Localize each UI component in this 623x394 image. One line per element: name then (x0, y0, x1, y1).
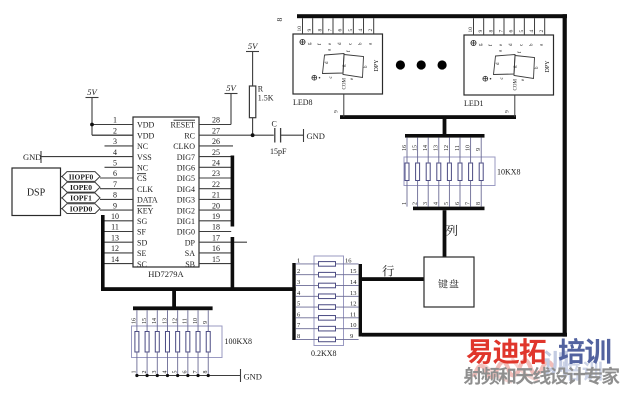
RN2 resistors (319, 262, 336, 342)
svg-text:DP: DP (185, 238, 196, 247)
svg-text:15: 15 (212, 255, 220, 264)
svg-text:15: 15 (412, 145, 418, 151)
bus: top LED segment bus (297, 14, 567, 18)
RN1 top pins with numbers (402, 138, 482, 163)
watermark slogan shepin he tianxian sheji zhuanjia (464, 367, 482, 385)
svg-text:9: 9 (350, 333, 353, 340)
power 5V supply #3 (RC) (246, 41, 259, 86)
svg-text:6: 6 (338, 29, 344, 32)
svg-text:CS: CS (137, 174, 147, 183)
svg-text:17: 17 (212, 233, 220, 242)
bus: 100KX8 top bus (133, 306, 213, 310)
power 5V supply #1 (VDD) (86, 87, 99, 135)
svg-text:9: 9 (476, 148, 482, 151)
net tag IOPD0 (61, 204, 101, 214)
svg-text:DPY: DPY (374, 59, 380, 72)
LED8 COM pin wire (334, 94, 344, 117)
svg-text:8: 8 (476, 202, 482, 205)
svg-text:SB: SB (185, 260, 195, 269)
bus: 10KX8 top bus (405, 134, 485, 138)
svg-text:3: 3 (423, 202, 429, 205)
svg-text:IIOPF0: IIOPF0 (69, 172, 94, 181)
svg-text:10: 10 (468, 27, 474, 33)
svg-text:13: 13 (162, 318, 168, 324)
U1 pin 23 (DIG5) (177, 169, 231, 183)
wire RN3 bottom common to GND (137, 375, 240, 377)
U1 pin 1 (VDD) (92, 116, 155, 130)
wire 5V to VDD pins (92, 125, 133, 136)
svg-text:3: 3 (152, 371, 158, 374)
U1 pin 2 (VDD) (92, 126, 155, 140)
resistor network RN1 10KX8 body (404, 157, 521, 186)
svg-text:GND: GND (307, 131, 325, 141)
svg-text:6: 6 (509, 30, 515, 33)
resistor network RN3 100KX8 body (132, 326, 253, 358)
svg-text:DIG5: DIG5 (177, 174, 195, 183)
U1 pin 16 (SA) (185, 244, 231, 258)
svg-text:19: 19 (212, 212, 220, 221)
U1 pin 27 (RC) (184, 126, 273, 140)
watermark logo echo (light overlay) (474, 350, 602, 382)
svg-text:5: 5 (172, 371, 178, 374)
svg-text:20: 20 (212, 201, 220, 210)
svg-text:1: 1 (297, 257, 300, 264)
svg-text:IOPD0: IOPD0 (70, 204, 93, 213)
svg-text:9: 9 (113, 201, 117, 210)
keyboard block (jianpan) (424, 257, 474, 307)
svg-text:18: 18 (212, 223, 220, 232)
svg-text:9: 9 (307, 29, 313, 32)
svg-text:DIG3: DIG3 (177, 196, 195, 205)
U1 pin 15 (SB) (185, 255, 231, 269)
svg-text:CLK: CLK (137, 185, 153, 194)
ground GND (VSS) (23, 151, 41, 163)
bus: bottom right return line (362, 333, 567, 337)
svg-text:4: 4 (113, 148, 117, 157)
U1 pin 25 (DIG7) (177, 148, 231, 162)
svg-text:16: 16 (132, 318, 138, 324)
svg-text:16: 16 (345, 257, 352, 264)
U1 pin 20 (DIG2) (177, 201, 231, 215)
LED1 COM and DPY labels (514, 60, 552, 91)
junction dot RC node (251, 133, 255, 137)
svg-text:8: 8 (488, 30, 494, 33)
U1 pin 13 (SD) (105, 233, 148, 247)
svg-text:7: 7 (465, 202, 471, 205)
LED1 COM pin wire (505, 95, 515, 117)
bus: 10KX8 bottom bus (413, 207, 485, 211)
svg-text:27: 27 (212, 126, 220, 135)
svg-text:28: 28 (212, 116, 220, 125)
svg-text:SG: SG (137, 217, 147, 226)
svg-text:3: 3 (113, 137, 117, 146)
svg-text:7: 7 (113, 180, 117, 189)
bus: column line to keyboard (443, 210, 447, 257)
svg-text:VSS: VSS (137, 153, 152, 162)
svg-text:13: 13 (350, 290, 357, 297)
RN2 right pins with numbers (336, 257, 359, 340)
svg-text:RESET: RESET (171, 121, 196, 130)
svg-text:9: 9 (478, 30, 484, 33)
bus: 0.2KX8 left bar (292, 263, 295, 340)
svg-text:2: 2 (142, 371, 148, 374)
svg-text:16: 16 (212, 244, 220, 253)
U1 pin 18 (DIG0) (177, 223, 231, 237)
svg-text:LED1: LED1 (464, 99, 484, 108)
DSP block (12, 168, 61, 216)
svg-text:SE: SE (137, 249, 146, 258)
svg-text:10: 10 (350, 322, 357, 329)
net tag IOPE0 (61, 182, 101, 192)
resistor R 1.5K (249, 85, 273, 118)
net tag IIOPF0 (61, 172, 101, 182)
bus: DP/SA/SB bus vertical (231, 237, 235, 291)
svg-text:14: 14 (152, 318, 158, 324)
svg-text:13: 13 (434, 145, 440, 151)
svg-text:RC: RC (184, 131, 195, 140)
svg-text:VDD: VDD (137, 121, 155, 130)
svg-text:DPY: DPY (545, 60, 551, 73)
svg-text:DIG7: DIG7 (177, 153, 195, 162)
LED1 segment pins to top bus (468, 18, 545, 35)
svg-text:2: 2 (113, 126, 117, 135)
svg-text:2: 2 (539, 30, 545, 33)
wire C to GND (281, 134, 303, 136)
RN2 left pins with numbers (296, 257, 319, 340)
U1 pin 22 (DIG4) (177, 180, 231, 194)
svg-text:6: 6 (113, 169, 117, 178)
svg-text:8: 8 (317, 29, 323, 32)
bus: row line to keyboard (362, 277, 424, 281)
svg-text:DIG2: DIG2 (177, 206, 195, 215)
U1 pin 3 (NC) (105, 137, 149, 151)
svg-text:21: 21 (212, 191, 220, 200)
RN1 resistors (405, 163, 483, 181)
svg-text:16: 16 (402, 145, 408, 151)
svg-text:SD: SD (137, 238, 147, 247)
svg-text:9: 9 (203, 321, 209, 324)
svg-text:DIG6: DIG6 (177, 164, 195, 173)
svg-text:SC: SC (137, 260, 147, 269)
svg-text:8: 8 (275, 18, 284, 22)
svg-text:10: 10 (111, 212, 119, 221)
LED8 segment pins to top bus (297, 18, 374, 34)
net label column (lie) (446, 225, 457, 236)
U1 pin 26 (CLKO) (173, 137, 233, 151)
svg-text:HD7279A: HD7279A (148, 269, 184, 279)
RN3 resistors (135, 332, 210, 353)
svg-text:5: 5 (348, 29, 354, 32)
svg-text:15pF: 15pF (270, 147, 287, 156)
svg-text:14: 14 (350, 279, 357, 286)
LED8 seven-segment glyph (312, 48, 369, 80)
svg-text:4: 4 (434, 202, 440, 205)
svg-text:7: 7 (193, 371, 199, 374)
svg-text:13: 13 (111, 233, 119, 242)
svg-text:12: 12 (172, 318, 178, 324)
bus: COM drop to 10KX8 (443, 119, 447, 135)
svg-text:KEY: KEY (137, 206, 154, 215)
svg-text:VDD: VDD (137, 131, 155, 140)
bus: drop to 100KX8 network (172, 291, 176, 307)
svg-text:4: 4 (358, 29, 364, 32)
svg-text:12: 12 (444, 145, 450, 151)
U1 pin 9 (KEY) (100, 201, 154, 215)
svg-text:10KX8: 10KX8 (497, 168, 521, 177)
svg-text:DSP: DSP (27, 188, 46, 199)
svg-text:14: 14 (111, 255, 119, 264)
IC U1 HD7279A body (133, 117, 199, 279)
resistor network RN2 0.2KX8 body (311, 256, 344, 358)
svg-text:25: 25 (212, 148, 220, 157)
watermark text yidituo peixun (467, 338, 611, 364)
svg-text:10: 10 (193, 318, 199, 324)
RN3 bottom pins with numbers (132, 352, 209, 376)
RN3 top pins with numbers (132, 310, 209, 331)
svg-text:DATA: DATA (137, 196, 158, 205)
LED8 COM and DPY labels (343, 59, 381, 90)
RN3 bottom junction dots (135, 374, 210, 377)
svg-text:2: 2 (297, 268, 300, 275)
U1 pin 5 (NC) (105, 159, 149, 173)
svg-text:23: 23 (212, 169, 220, 178)
capacitor C 15pF (270, 120, 287, 157)
svg-text:10: 10 (297, 26, 303, 32)
svg-text:9: 9 (505, 110, 511, 113)
svg-text:12: 12 (350, 301, 357, 308)
svg-text:NC: NC (137, 164, 148, 173)
svg-text:10: 10 (465, 145, 471, 151)
U1 pin 21 (DIG3) (177, 191, 231, 205)
junction dot VDD (90, 123, 94, 127)
svg-text:DIG0: DIG0 (177, 228, 195, 237)
svg-text:1.5K: 1.5K (258, 94, 274, 103)
svg-text:8: 8 (203, 371, 209, 374)
svg-text:DIG1: DIG1 (177, 217, 195, 226)
svg-text:26: 26 (212, 137, 220, 146)
svg-text:2: 2 (368, 29, 374, 32)
bus: right vertical bus (563, 14, 567, 336)
svg-text:8: 8 (113, 191, 117, 200)
svg-text:8: 8 (297, 333, 300, 340)
svg-text:4: 4 (162, 371, 168, 374)
LED1 seven-segment glyph (483, 49, 540, 81)
ground GND (100KX8 common) (241, 369, 262, 382)
bus: LED COM line (340, 115, 516, 119)
svg-text:SF: SF (137, 228, 146, 237)
svg-text:3: 3 (297, 279, 300, 286)
U1 pin 11 (SF) (105, 223, 147, 237)
svg-text:11: 11 (455, 145, 461, 151)
U1 pin 7 (CLK) (100, 180, 153, 194)
svg-text:COM: COM (514, 79, 519, 91)
bus: bottom horizontal segment bus (101, 287, 296, 291)
U1 pin 8 (DATA) (100, 191, 158, 205)
U1 pin 19 (DIG1) (177, 212, 231, 226)
RN1 bottom pins with numbers (402, 181, 482, 207)
svg-text:12: 12 (111, 244, 119, 253)
svg-text:24: 24 (212, 159, 220, 168)
svg-text:0.2KX8: 0.2KX8 (311, 349, 337, 358)
LED8 inner pin symbols (300, 39, 374, 45)
LED1 inner pin symbols (471, 40, 545, 46)
svg-text:7: 7 (328, 29, 334, 32)
svg-text:5: 5 (519, 30, 525, 33)
U1 pin 10 (SG) (101, 212, 147, 226)
svg-text:6: 6 (455, 202, 461, 205)
svg-text:11: 11 (183, 318, 189, 324)
svg-text:11: 11 (111, 223, 119, 232)
ellipsis dots between LED displays (396, 60, 447, 69)
bus: DIG bus vertical (DIG7-DIG0) (231, 156, 235, 227)
svg-text:1: 1 (113, 116, 117, 125)
LED display LED8 body (293, 34, 383, 107)
svg-text:DIG4: DIG4 (177, 185, 195, 194)
svg-text:9: 9 (334, 110, 340, 113)
svg-text:14: 14 (423, 145, 429, 151)
svg-text:C: C (272, 120, 277, 129)
svg-text:COM: COM (343, 78, 348, 90)
svg-text:LED8: LED8 (293, 98, 313, 107)
bus: 0.2KX8 right bar (359, 264, 362, 337)
svg-text:IOPE0: IOPE0 (70, 183, 92, 192)
svg-text:2: 2 (412, 202, 418, 205)
U1 pin 6 (CS) (100, 169, 147, 183)
svg-text:100KX8: 100KX8 (225, 337, 253, 346)
svg-text:4: 4 (529, 30, 535, 33)
svg-text:5: 5 (297, 301, 300, 308)
U1 pin 28 (RESET) (171, 116, 231, 130)
svg-text:15: 15 (142, 318, 148, 324)
svg-text:22: 22 (212, 180, 220, 189)
wire R bottom to RC node (252, 118, 254, 136)
U1 pin 24 (DIG6) (177, 159, 231, 173)
svg-text:GND: GND (244, 372, 262, 382)
svg-text:SA: SA (185, 249, 195, 258)
net tag IOPF1 (61, 193, 101, 203)
U1 pin 17 (DP) (185, 233, 247, 247)
svg-text:6: 6 (183, 371, 189, 374)
svg-text:11: 11 (350, 311, 356, 318)
svg-text:7: 7 (499, 30, 505, 33)
svg-text:NC: NC (137, 142, 148, 151)
bus: segment bus left vertical (SG..SC) (101, 215, 105, 291)
ground GND (RC filter) (304, 129, 325, 142)
power 5V supply #2 (RESET pullup) (225, 83, 238, 125)
U1 pin 4 (VSS) (41, 148, 152, 162)
svg-text:1: 1 (132, 371, 138, 374)
svg-text:1: 1 (402, 202, 408, 205)
wire GND to U1 pin4 (40, 156, 42, 158)
svg-text:15: 15 (350, 268, 357, 275)
svg-text:5: 5 (113, 159, 117, 168)
svg-text:5: 5 (444, 202, 450, 205)
U1 pin 14 (SC) (105, 255, 147, 269)
net label row (hang) (382, 265, 394, 276)
svg-text:R: R (258, 85, 264, 94)
U1 pin 12 (SE) (105, 244, 147, 258)
svg-text:CLKO: CLKO (173, 142, 195, 151)
LED display LED1 body (464, 35, 554, 108)
svg-text:IOPF1: IOPF1 (70, 194, 92, 203)
svg-text:GND: GND (23, 152, 41, 162)
